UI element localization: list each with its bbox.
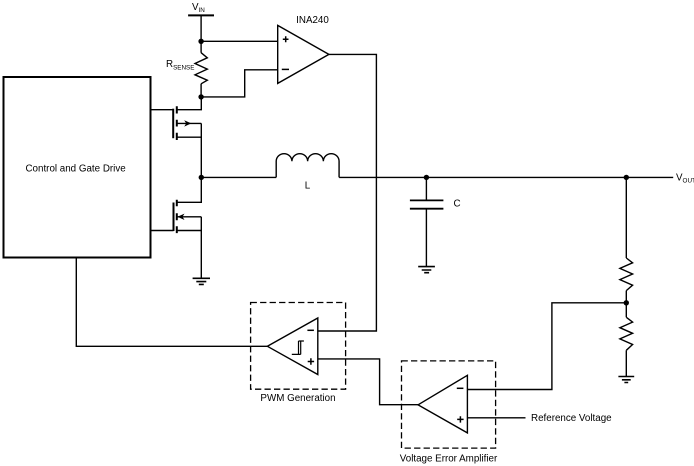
svg-text:INA240: INA240 <box>296 15 329 26</box>
svg-text:Control and Gate Drive: Control and Gate Drive <box>25 163 126 174</box>
svg-text:L: L <box>305 180 311 191</box>
svg-text:C: C <box>453 199 460 210</box>
svg-text:Reference Voltage: Reference Voltage <box>531 413 612 424</box>
svg-text:Voltage Error Amplifier: Voltage Error Amplifier <box>400 453 498 464</box>
svg-text:PWM Generation: PWM Generation <box>260 393 335 404</box>
